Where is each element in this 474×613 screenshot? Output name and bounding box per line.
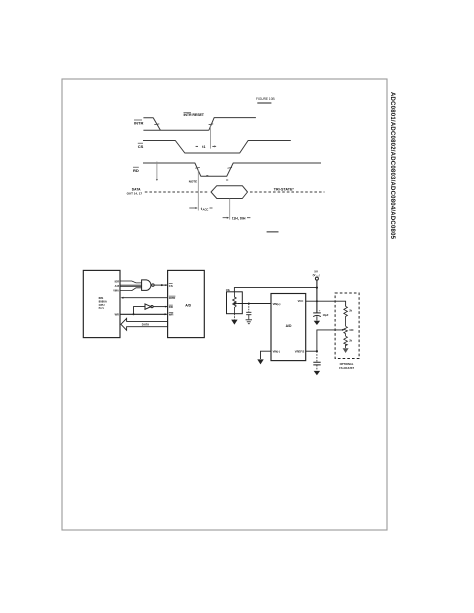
INTR low rail [143,129,209,131]
A/D pin label WR [169,313,174,317]
CS trace [143,141,291,154]
wiper arrow of R1 [234,303,238,305]
bus label DATA [142,323,149,327]
wire VIN(-) to ground [261,351,272,359]
svg-text:OUT 14, 17: OUT 14, 17 [127,191,143,195]
arrowhead into RD pin [165,306,168,308]
svg-text:ACC: ACC [203,208,209,212]
signal label DATA OUTPUTS [127,188,143,196]
wire CPU pin 4 to NAND input [120,288,142,291]
label INTR RESET [184,113,205,117]
A/D converter block U3 [271,294,306,361]
A/D block label [185,304,191,308]
note text under RD falling edge [189,180,197,184]
svg-text:VIN(+): VIN(+) [273,302,281,306]
junction dot on VIN+ wire [248,303,250,305]
svg-text:WR: WR [169,313,174,317]
svg-text:CPU: CPU [99,303,105,307]
vertical annotation at RD high start [156,162,158,181]
pot box (zero adjust) [227,292,243,314]
INTR trace high segment and falling edge [143,118,160,130]
signal label CS [138,144,144,149]
wiper arrow of trimmer R3 [342,329,344,331]
svg-text:FIGURE 10B: FIGURE 10B [256,97,275,101]
VCC terminal circle [315,277,318,280]
capacitor C3 [313,362,320,365]
node VREF junction dot [316,350,318,352]
arrowhead into CPU (INTR) [121,297,124,299]
wire pot bottom to ground [233,314,235,320]
wire VREF/2 to node [306,350,317,352]
electrolytic capacitor C2 [313,312,321,314]
annotation t1H t0H [223,217,228,219]
svg-text:): ) [319,273,320,277]
dashed wire to optional cap C3 [316,351,318,362]
caption under dashed box [339,362,354,370]
vertical annotation from hexagon bottom [229,199,231,220]
arrowhead into WR pin [165,313,168,315]
wire trimmer wiper to VREF/2 [317,330,343,351]
dashed box (optional full-scale adjust) [335,293,359,359]
svg-text:A/D: A/D [185,304,191,308]
svg-text:100: 100 [349,329,354,332]
data valid hexagon [211,186,248,199]
tick on RD rising edge [227,167,232,170]
figure title (faint) above timing diagram [256,97,275,103]
INTR rising edge and high segment [209,118,256,131]
junction dot VCC rail [316,300,318,302]
CPU pin labels [113,280,120,316]
wire INTR from A/D to CPU [123,297,168,299]
wire WR tee up to inverter input [134,307,146,315]
wire VCC terminal down to node [316,280,318,288]
DATA dashed line left [145,191,209,193]
junction dot on CS wire [161,284,163,286]
label TRI-STATE [274,187,295,191]
signal label INTR [134,121,143,126]
tick on RD low level [206,175,208,177]
svg-text:2k: 2k [349,339,352,342]
svg-text:A/D: A/D [286,324,292,328]
signal label RD [133,168,139,173]
svg-text:VREF/2: VREF/2 [295,350,305,354]
wire VCC node down to bypass cap [316,288,318,313]
svg-text:DATA: DATA [142,323,149,327]
junction dot on WR wire [133,313,135,315]
svg-text:VIN(-): VIN(-) [273,350,280,354]
trimmer R3 [344,326,348,336]
wire CPU pin 3 to NAND input [120,286,142,288]
wire WR from CPU to A/D [120,313,167,315]
ground under pot [231,320,237,325]
VCC supply label [313,270,320,278]
resistor R2 [344,306,348,326]
svg-text:RD: RD [169,305,173,309]
wire inverter output to A/D RD [153,306,168,308]
svg-text:t1: t1 [202,145,205,149]
svg-text:OPTIONAL: OPTIONAL [340,362,354,366]
annotation t1 [202,145,205,149]
tick on RD falling edge [195,167,200,170]
pot box label [226,289,231,292]
wire wiper to A/D VIN+ [238,303,272,305]
svg-text:t1H, t0H: t1H, t0H [232,216,246,220]
svg-text:TRI-STATE*: TRI-STATE* [274,187,295,191]
A/D block U2 [168,270,205,337]
wire A/D VCC pin to trimmer network [306,301,346,306]
data bus arrow from A/D to CPU [121,318,168,330]
A/D pin label RD [169,305,173,309]
wire CPU pin 2 to NAND input [120,284,142,286]
tick above hexagon [226,179,228,181]
svg-text:CS: CS [169,284,173,288]
capacitor C1 from VIN+ wire [248,304,250,312]
node VCC junction dot [316,287,318,289]
wire NAND output to A/D CS [154,284,168,286]
resistor R4 [344,336,348,346]
svg-text:A15: A15 [115,285,120,288]
svg-text:WR: WR [115,314,119,317]
ground under capacitor C1 [246,320,252,324]
ground at VIN(-) [257,359,263,364]
wire VCC node to pot (left) [234,288,317,292]
svg-text:INTR: INTR [169,296,176,300]
page border frame [62,79,387,530]
RD trace [143,163,321,176]
vertical annotation from RD falling edge down [197,170,199,211]
ground under C3 [314,371,320,375]
annotation tACC [189,207,195,209]
arrowhead into CS pin [165,284,168,286]
figure caption dash below timing diagram [267,231,279,233]
wire CPU pin 1 to NAND input [120,281,142,283]
sidebar part-number text ADC0801/ADC0802/ADC0803/ADC0804/ADC0805 [389,92,395,240]
A/D pin label INTR [169,296,176,300]
svg-text:VCC: VCC [298,299,304,303]
potentiometer R1 zigzag [233,292,237,314]
svg-text:INTR RESET: INTR RESET [184,113,205,117]
vertical annotation line from INTR rising edge to CS row [209,126,211,149]
svg-text:BUS: BUS [99,306,105,310]
svg-text:10k: 10k [226,289,231,292]
DATA dashed line right [250,191,325,193]
svg-text:+: + [319,309,321,313]
svg-text:INTR: INTR [134,121,143,126]
svg-text:CS: CS [138,144,144,149]
tick on INTR falling edge [154,123,159,126]
ground under C2 [314,321,320,325]
svg-text:ADC0801/ADC0802/ADC0803/ADC080: ADC0801/ADC0802/ADC0803/ADC0804/ADC0805 [389,92,395,240]
NAND gate G1 [142,280,151,291]
svg-text:VMA: VMA [113,289,119,292]
CPU block U1 [83,270,120,337]
tick on INTR rising edge [209,123,214,126]
inverter G2 [145,304,151,309]
svg-text:NOTE: NOTE [189,180,197,184]
svg-text:10µF: 10µF [323,314,329,317]
svg-text:FS ADJUST: FS ADJUST [339,366,354,370]
svg-text:RD: RD [133,168,139,173]
svg-text:IOR: IOR [115,280,120,283]
svg-text:2k: 2k [349,309,352,312]
A/D pin label CS [169,284,173,288]
ground arrow in dashed box [345,345,347,349]
